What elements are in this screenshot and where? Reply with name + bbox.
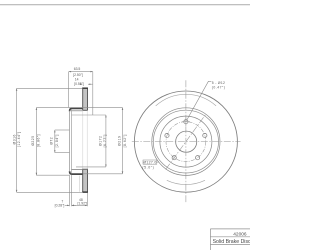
horizontal centerline [132, 141, 241, 143]
disc ring bar middle faint edges [83, 110, 87, 169]
shared extension line hat top [36, 107, 122, 109]
svg-text:[6.77"]: [6.77"] [103, 134, 107, 147]
dim 63.5 right extension [92, 72, 94, 115]
hat face inner line [71, 109, 73, 173]
dim hat flange od label [31, 134, 40, 147]
page border top [0, 4, 250, 6]
bolt hole lower-left [172, 156, 176, 160]
top bolt hole crosshair [182, 117, 190, 126]
dim 63.5 line with arrows [69, 71, 93, 73]
faint arc near top rim [156, 94, 216, 106]
disc ring bar upper segment [82, 88, 88, 110]
dim 172 label [99, 134, 108, 147]
bolt hole top [184, 120, 188, 124]
svg-text:(0.47"): (0.47") [212, 86, 226, 90]
dim 63.5 left extension [68, 72, 70, 108]
lug hole leader line [187, 81, 212, 120]
friction band outer circle [152, 108, 220, 176]
svg-text:[12.44"]: [12.44"] [17, 132, 21, 148]
dim hat face od bottom extension [83, 173, 123, 175]
dim 48 line with arrows [72, 205, 88, 207]
hat flange bottom inner face [72, 169, 88, 171]
bottom dim extension flange face [71, 175, 73, 206]
title block frame [210, 229, 250, 250]
svg-text:[2.50"]: [2.50"] [73, 73, 83, 77]
lug hole label [212, 81, 226, 90]
svg-text:Ø225: Ø225 [31, 135, 35, 145]
dim center bore top extension [55, 129, 70, 131]
bolt circle boxed label [142, 160, 159, 169]
hat flange top inner face [72, 110, 83, 112]
bolt hole upper-right [203, 133, 207, 137]
svg-text:Ø172: Ø172 [99, 136, 103, 146]
dim OD vertical line with arrows [16, 88, 18, 192]
svg-text:(5.0"): (5.0") [142, 165, 154, 169]
dim 48 text [77, 198, 87, 205]
friction band inner circle [153, 110, 218, 173]
svg-text:42006: 42006 [233, 231, 247, 237]
hat flange bottom band [70, 171, 83, 174]
dim OD label [12, 132, 21, 148]
bolt circle centerline [166, 122, 206, 162]
svg-text:Ø219: Ø219 [118, 136, 122, 146]
svg-text:[0.28"]: [0.28"] [55, 203, 65, 207]
dim 7 arrows [65, 205, 76, 207]
bolt hole lower-right [196, 156, 200, 160]
dim hat face od label [118, 134, 128, 147]
svg-text:[8.86"]: [8.86"] [36, 134, 40, 147]
dim hat flange od vertical line with arrows [36, 108, 38, 176]
svg-text:[2.84"]: [2.84"] [55, 134, 59, 147]
bolt hole upper-left [165, 133, 169, 137]
bottom dim extension disc outer face [86, 193, 88, 206]
dim center bore vertical line with arrows [54, 130, 56, 153]
dim 7 text [55, 200, 65, 208]
outer diameter circle [134, 91, 237, 192]
svg-text:[8.62"]: [8.62"] [123, 134, 127, 147]
dim OD extension top [17, 87, 83, 89]
vertical centerline [185, 80, 187, 202]
dim 172 top extension [72, 114, 106, 116]
dim 14 arrows [80, 83, 92, 85]
svg-text:Solid Brake Disc: Solid Brake Disc [213, 239, 250, 245]
hidden line in hat lower area [78, 176, 80, 192]
bottom dim extension hat face [69, 176, 71, 206]
faint arc near bottom rim [167, 180, 205, 184]
center bore circle [176, 131, 197, 152]
svg-text:[0.55"]: [0.55"] [74, 82, 84, 86]
dim center bore label [50, 134, 59, 147]
dim hat flange od: bottom extension [36, 174, 70, 176]
hub flange circle [160, 116, 212, 167]
svg-text:Ø72: Ø72 [50, 137, 54, 145]
svg-text:Ø127.0: Ø127.0 [143, 161, 156, 165]
dim 172 vertical line with arrows [105, 115, 107, 167]
hat flange top band [70, 108, 83, 111]
dim OD extension bottom [17, 191, 83, 193]
dim 14 text [74, 78, 84, 86]
diagonal centerline [166, 114, 207, 170]
hat face outer line [69, 111, 71, 172]
svg-text:Ø316: Ø316 [12, 134, 16, 144]
svg-text:[1.92"]: [1.92"] [77, 201, 87, 205]
svg-text:63.5: 63.5 [74, 67, 81, 71]
disc ring bar lower segment [82, 169, 88, 192]
dim 63.5 text [73, 67, 83, 77]
svg-text:5 - Ø12: 5 - Ø12 [212, 81, 225, 85]
dim hat face od vertical line with arrows [122, 108, 124, 174]
dim center bore bottom extension [55, 152, 70, 154]
dim 172 bottom extension [76, 166, 106, 168]
